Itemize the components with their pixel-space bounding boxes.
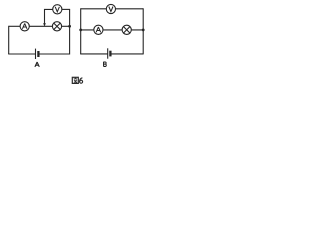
wire: left circuit, ammeter to lamp [29,25,52,27]
wire: left circuit bottom wire, right of battery [38,53,69,55]
junction dot, middle wire right (right circuit) [142,29,145,32]
battery B1 long plate (left circuit) [35,49,37,59]
wire: left circuit bottom wire, left of battery [8,53,35,55]
lamp L1 (left circuit, circle with X) [52,22,61,31]
label A (left circuit) [35,62,39,67]
wire: left circuit right vertical [69,9,71,54]
wire: right circuit top wire [81,8,144,10]
battery B1 short thick plate (left circuit) [37,51,39,57]
lamp L2 (right circuit, circle with X) [122,25,131,34]
battery B2 short thick plate (right circuit) [109,51,111,57]
voltmeter V (left circuit) [53,5,62,14]
wire: left circuit left vertical [8,26,10,54]
ammeter A (right circuit) [94,25,103,34]
junction arrow at voltmeter tap (left circuit) [43,23,46,26]
battery B2 long plate (right circuit) [107,48,109,58]
wire: right circuit left vertical [80,8,82,54]
label B (right circuit) [104,62,107,67]
wire: right circuit middle wire [81,29,144,31]
wire: voltmeter to top-right corner (left circuit) [62,8,70,10]
voltmeter V (right circuit) [106,4,115,13]
junction dot, lamp to right vertical (left circuit) [68,25,71,28]
wire: right circuit bottom wire, right of battery [111,53,144,55]
wire: left circuit top wire, left end to ammeter [9,25,21,27]
junction dot, middle wire left (right circuit) [79,29,82,32]
wire: right circuit bottom wire, left of battery [80,53,108,55]
ammeter A (left circuit) [20,22,29,31]
figure label 图6 [72,77,82,83]
wire: left circuit, lamp to right vertical [62,25,70,27]
wire: right circuit right vertical [142,8,144,54]
wire: voltmeter branch vertical with corner (left circuit) [45,9,53,25]
